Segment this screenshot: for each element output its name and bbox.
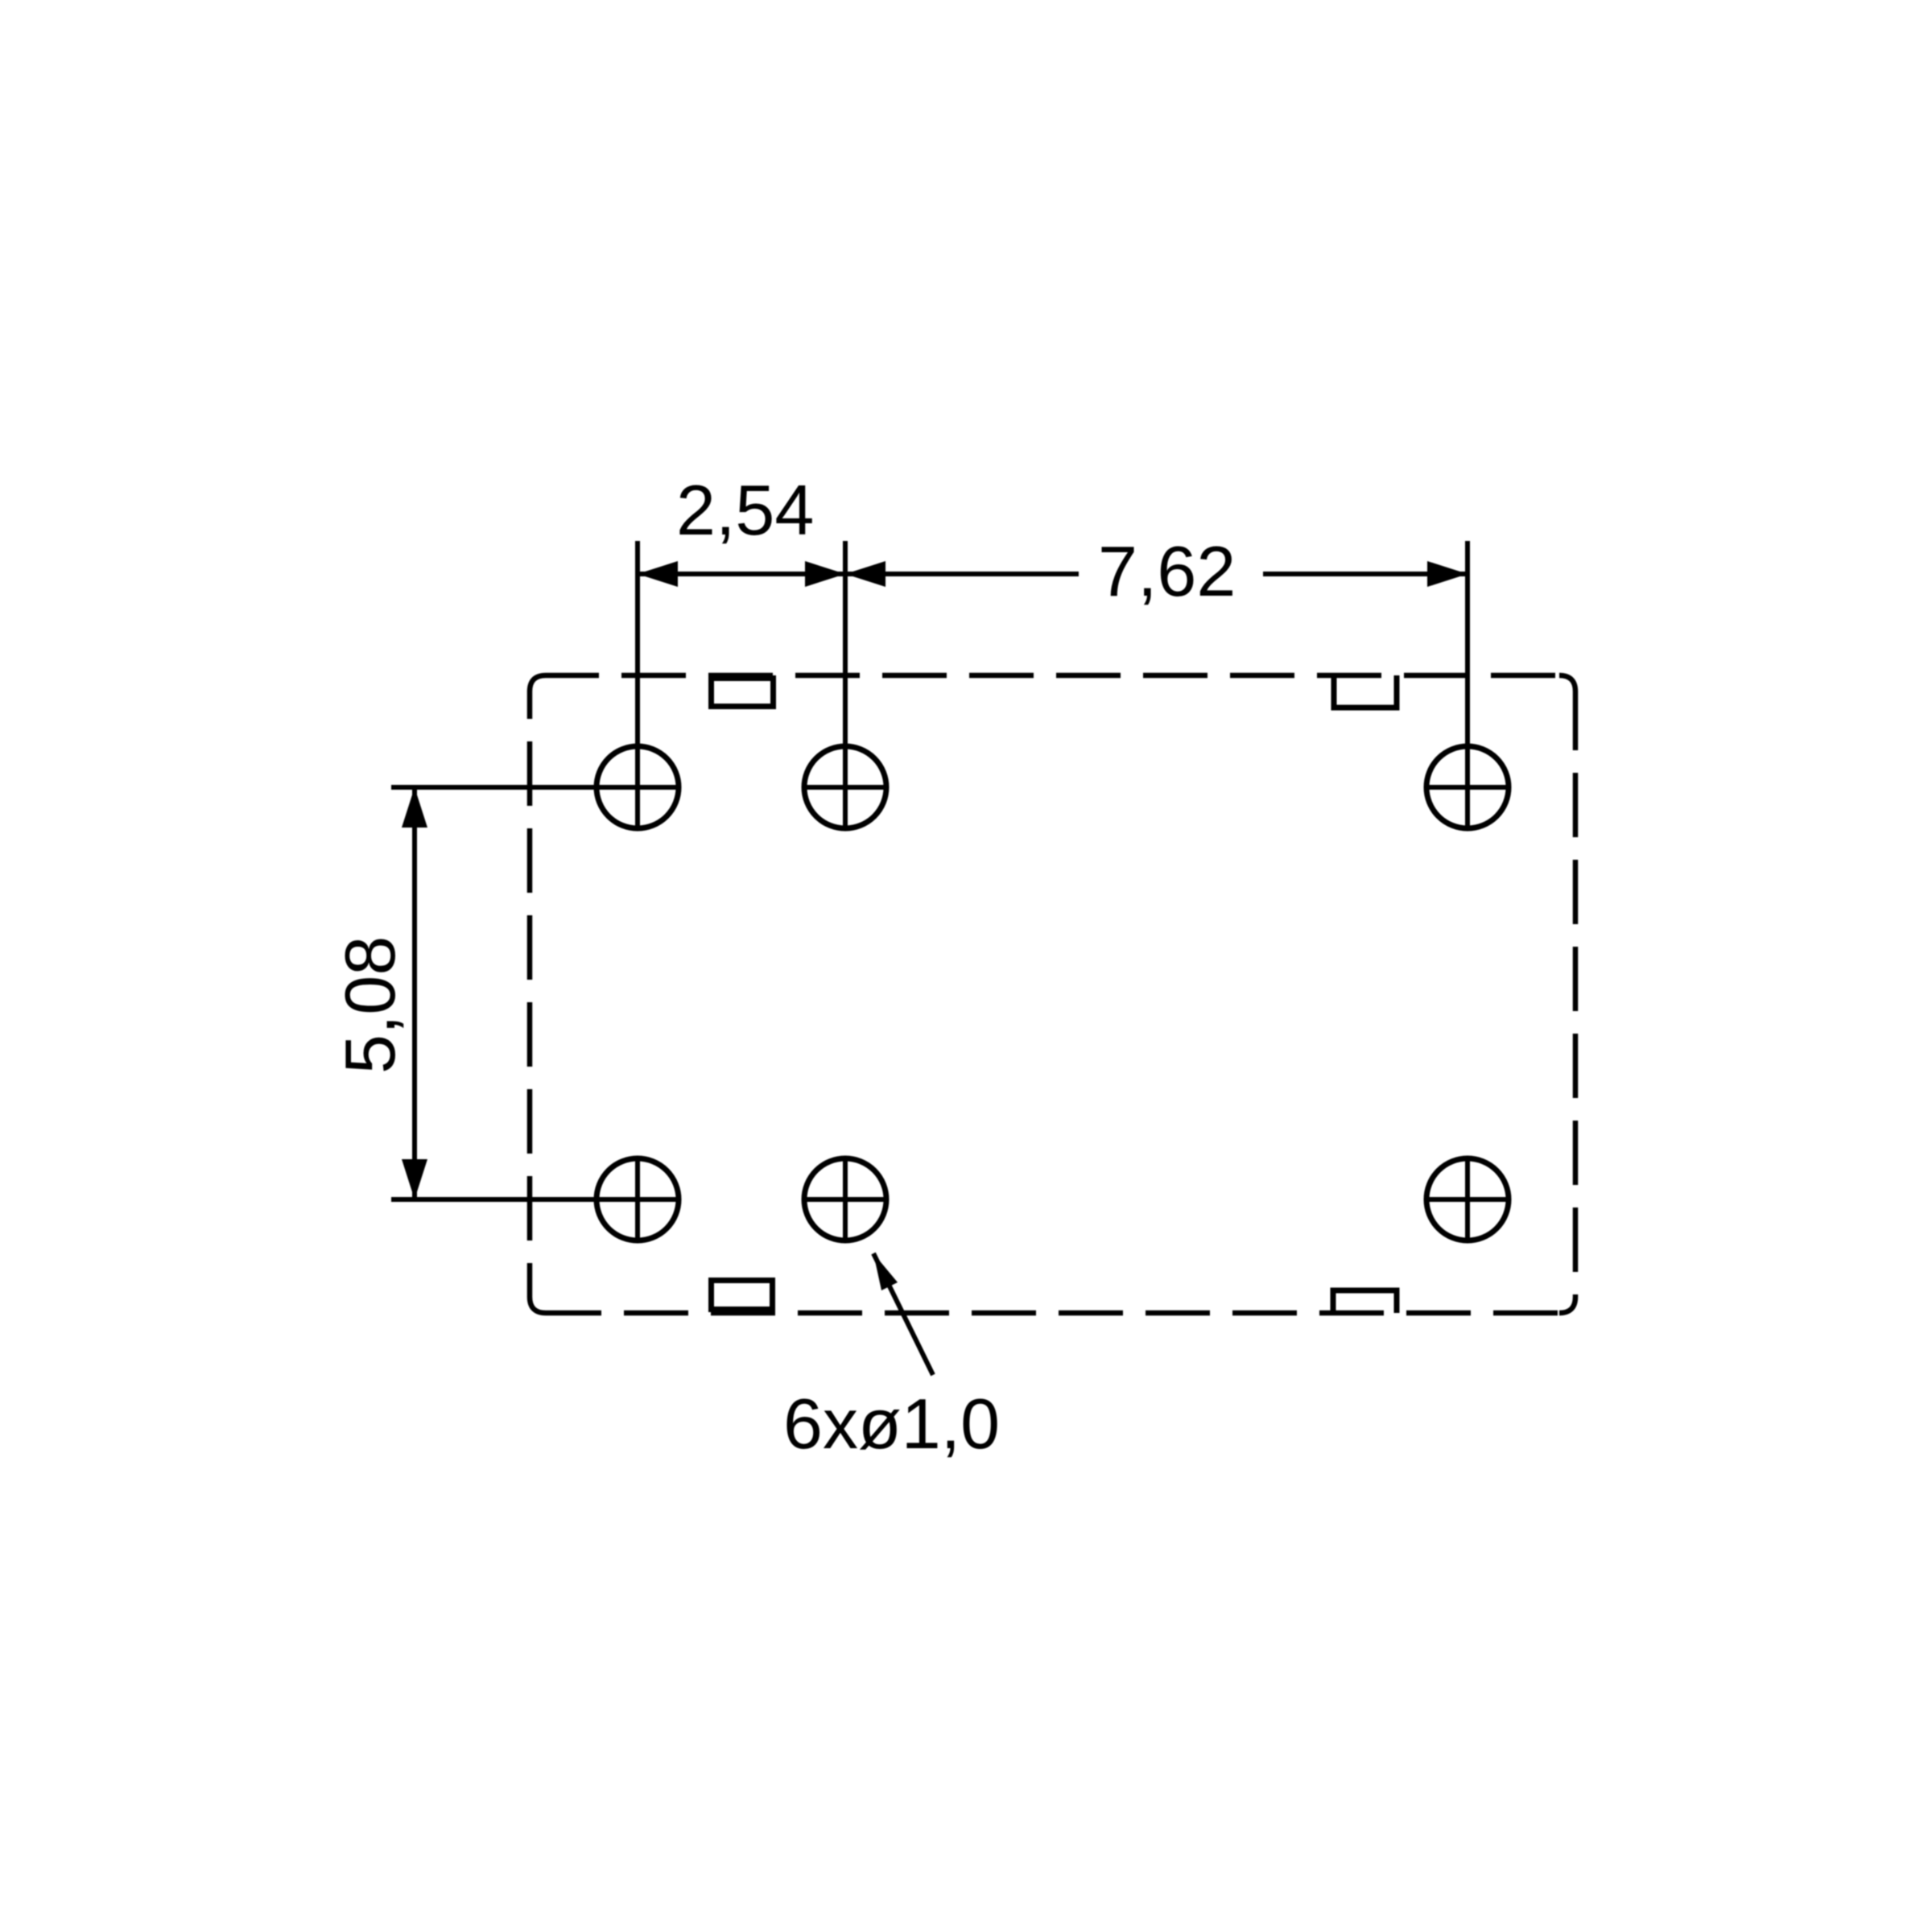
- body outline corner bottom-right: [1559, 1297, 1575, 1313]
- pad hole 4 circle: [597, 1158, 679, 1241]
- pad hole 3 horizontal crosshair: [1424, 785, 1511, 790]
- pad hole 5 vertical crosshair: [843, 1156, 848, 1243]
- dimension 2,54 line: [638, 572, 845, 576]
- pad hole 2 circle: [804, 746, 886, 828]
- svg-text:5,08: 5,08: [330, 936, 410, 1074]
- pad hole 1 vertical crosshair / extension line: [635, 541, 640, 831]
- pad hole 2 vertical crosshair / extension line: [843, 541, 848, 831]
- body outline corner bottom-left: [530, 1297, 546, 1313]
- leader line for hole diameter: [873, 1253, 933, 1375]
- dimension 2,54 left arrow: [638, 561, 678, 587]
- body outline corner top-left: [530, 675, 546, 691]
- body outline dashed top edge: [546, 673, 1559, 679]
- dimension 7,62 line right segment: [1263, 572, 1468, 576]
- pad hole 3 circle: [1426, 746, 1509, 828]
- body outline dashed right edge: [1573, 691, 1579, 1297]
- leader arrowhead: [873, 1253, 898, 1290]
- pad hole 5 circle: [804, 1158, 886, 1241]
- dimension 7,62 line left segment: [845, 572, 1079, 576]
- body outline dashed bottom edge: [546, 1311, 1559, 1316]
- pad hole 6 vertical crosshair: [1465, 1156, 1470, 1243]
- notch rectangle top-left: [712, 679, 774, 707]
- pad hole 6 circle: [1426, 1158, 1509, 1241]
- pad hole 1 horizontal crosshair / extension line: [391, 785, 681, 790]
- pad hole 5 horizontal crosshair: [802, 1197, 889, 1202]
- dimension 5,08 bottom arrow: [402, 1159, 427, 1199]
- body outline dashed left edge: [527, 691, 533, 1297]
- dimension 5,08 top arrow: [402, 787, 427, 828]
- pad hole 1 circle: [597, 746, 679, 828]
- pad hole 2 horizontal crosshair: [802, 785, 889, 790]
- svg-text:7,62: 7,62: [1098, 531, 1236, 611]
- dimension 7,62 right arrow: [1427, 561, 1468, 587]
- svg-text:2,54: 2,54: [676, 470, 814, 550]
- svg-text:6xø1,0: 6xø1,0: [783, 1384, 1000, 1463]
- dimension 2,54 right arrow: [805, 561, 845, 587]
- pad hole 4 horizontal crosshair / extension line: [391, 1197, 681, 1202]
- dimension 7,62 left arrow: [845, 561, 885, 587]
- dimension 5,08 line: [412, 787, 417, 1199]
- body outline corner top-right: [1559, 675, 1575, 691]
- notch U top-right: [1334, 675, 1397, 708]
- notch bump bottom-right: [1333, 1290, 1397, 1313]
- pad hole 3 vertical crosshair / extension line: [1465, 541, 1470, 831]
- pad hole 6 horizontal crosshair: [1424, 1197, 1511, 1202]
- notch rectangle bottom-left: [712, 1281, 773, 1310]
- pad hole 4 vertical crosshair: [635, 1156, 640, 1243]
